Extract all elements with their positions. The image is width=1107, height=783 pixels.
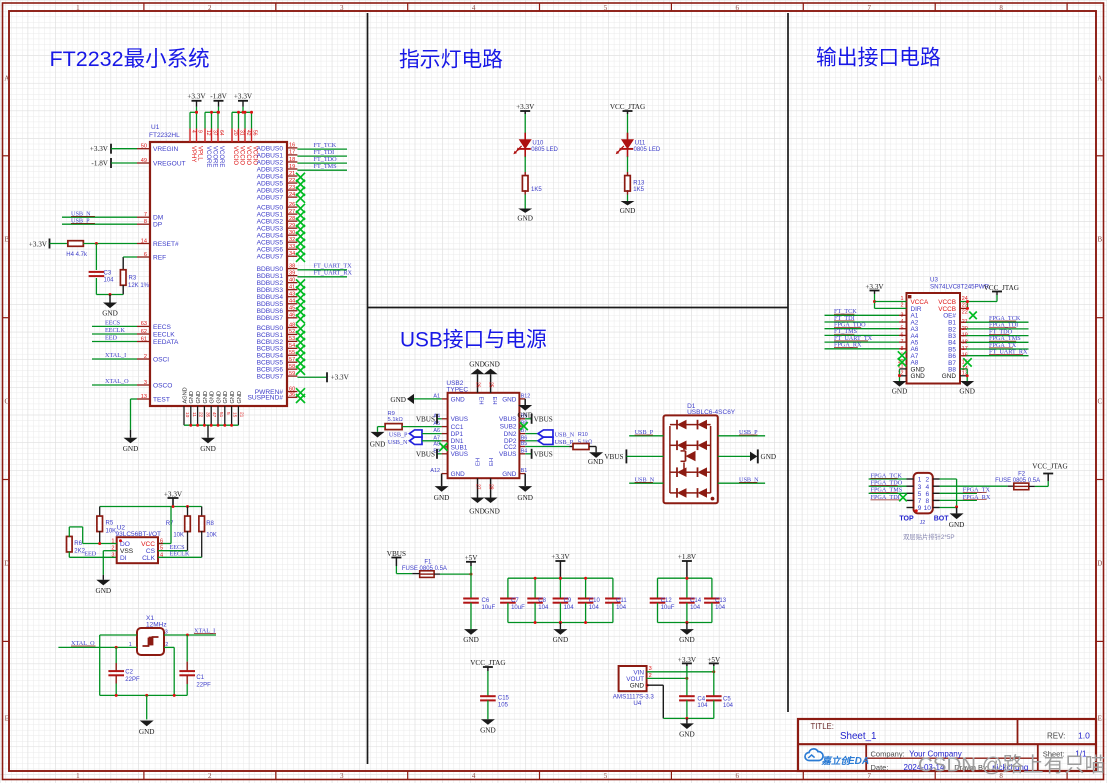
svg-text:7: 7 (144, 212, 147, 218)
svg-text:104: 104 (538, 605, 549, 611)
svg-text:ADBUS6: ADBUS6 (257, 187, 284, 194)
svg-text:DM: DM (153, 215, 163, 222)
svg-text:VCCIO: VCCIO (239, 146, 245, 165)
svg-text:31: 31 (239, 130, 245, 136)
svg-text:VPLL: VPLL (197, 146, 203, 161)
svg-text:2: 2 (208, 772, 212, 780)
svg-text:EH: EH (491, 397, 497, 405)
svg-text:22: 22 (962, 310, 968, 316)
svg-text:BDBUS5: BDBUS5 (257, 301, 284, 308)
svg-text:D: D (4, 560, 9, 568)
svg-text:DO: DO (120, 541, 130, 548)
svg-text:GND: GND (892, 388, 908, 396)
svg-text:104: 104 (715, 605, 726, 611)
svg-text:VBUS: VBUS (499, 416, 516, 423)
svg-text:35: 35 (204, 412, 210, 418)
svg-text:DP1: DP1 (451, 431, 464, 438)
svg-text:32: 32 (289, 237, 295, 243)
svg-text:59: 59 (289, 371, 295, 377)
svg-text:C5: C5 (723, 696, 731, 702)
svg-text:CLK: CLK (142, 555, 155, 562)
svg-text:BCBUS3: BCBUS3 (257, 346, 284, 353)
svg-text:B: B (4, 236, 9, 244)
svg-text:GND: GND (484, 360, 500, 368)
svg-text:ACBUS2: ACBUS2 (257, 219, 284, 226)
svg-text:C: C (4, 398, 9, 406)
svg-text:OSCI: OSCI (153, 356, 169, 363)
svg-text:TEST: TEST (153, 396, 170, 403)
svg-text:BCBUS7: BCBUS7 (257, 373, 284, 380)
svg-text:23: 23 (289, 185, 295, 191)
svg-text:1: 1 (918, 477, 922, 484)
svg-text:FT_UART_TX: FT_UART_TX (314, 263, 353, 270)
svg-text:CSDN @路上有只喵: CSDN @路上有只喵 (918, 754, 1105, 777)
svg-text:DI: DI (120, 555, 127, 562)
svg-text:FT_UART_RX: FT_UART_RX (314, 270, 353, 277)
svg-text:19: 19 (289, 164, 295, 170)
svg-text:A12: A12 (430, 468, 440, 474)
svg-text:A: A (1097, 75, 1102, 83)
svg-text:3: 3 (918, 484, 922, 491)
svg-text:ACBUS6: ACBUS6 (257, 247, 284, 254)
svg-text:8: 8 (925, 498, 929, 505)
svg-text:42: 42 (245, 130, 251, 136)
svg-text:TITLE:: TITLE: (811, 722, 834, 731)
svg-text:57: 57 (289, 357, 295, 363)
svg-text:A8: A8 (433, 442, 440, 448)
svg-text:7: 7 (867, 4, 871, 12)
svg-text:10uF: 10uF (661, 605, 675, 611)
svg-text:22PF: 22PF (125, 677, 140, 683)
svg-text:F2: F2 (1018, 471, 1026, 477)
svg-text:23: 23 (962, 303, 968, 309)
svg-text:USB_P: USB_P (555, 439, 574, 446)
svg-text:+1.8V: +1.8V (678, 553, 697, 561)
svg-text:VBUS: VBUS (534, 416, 553, 424)
svg-text:4: 4 (472, 4, 476, 12)
svg-text:14: 14 (141, 238, 147, 244)
svg-text:SUB2: SUB2 (500, 424, 517, 431)
svg-text:9: 9 (918, 505, 922, 512)
svg-text:R13: R13 (633, 181, 645, 187)
svg-text:EED: EED (84, 550, 97, 557)
svg-text:R5: R5 (106, 521, 114, 527)
svg-text:6: 6 (736, 4, 740, 12)
svg-text:10uF: 10uF (511, 605, 525, 611)
svg-text:GND: GND (463, 636, 479, 644)
svg-text:GND: GND (679, 731, 695, 739)
svg-text:GND: GND (484, 508, 500, 516)
svg-text:ACBUS0: ACBUS0 (257, 205, 284, 212)
svg-text:EH: EH (489, 458, 495, 466)
svg-text:+3.3V: +3.3V (234, 93, 253, 101)
svg-text:VBUS: VBUS (499, 451, 516, 458)
svg-text:GND: GND (96, 587, 112, 595)
svg-text:43: 43 (289, 292, 295, 298)
svg-text:30: 30 (289, 230, 295, 236)
svg-text:21: 21 (238, 412, 244, 418)
svg-text:VBUS: VBUS (604, 453, 623, 461)
svg-text:4: 4 (925, 484, 929, 491)
svg-text:26: 26 (289, 202, 295, 208)
svg-text:+3.3V: +3.3V (865, 283, 884, 291)
svg-text:FT2232最小系统: FT2232最小系统 (50, 47, 210, 71)
svg-text:24: 24 (289, 192, 295, 198)
svg-text:22: 22 (198, 412, 204, 418)
svg-text:7: 7 (867, 772, 871, 780)
svg-text:C14: C14 (690, 598, 702, 604)
svg-text:USBLC6-4SC6Y: USBLC6-4SC6Y (687, 409, 736, 416)
svg-text:C8: C8 (538, 598, 546, 604)
svg-text:27: 27 (475, 484, 481, 490)
svg-text:6: 6 (144, 252, 147, 258)
svg-text:EECS: EECS (153, 324, 172, 331)
svg-text:7: 7 (918, 498, 922, 505)
svg-text:FT_TCK: FT_TCK (314, 142, 337, 149)
svg-text:104: 104 (697, 703, 708, 709)
svg-text:104: 104 (616, 605, 627, 611)
svg-text:41: 41 (289, 284, 295, 290)
svg-text:+3.3V: +3.3V (90, 145, 109, 153)
svg-text:ADBUS3: ADBUS3 (257, 166, 284, 173)
svg-text:C1: C1 (196, 675, 204, 681)
svg-text:Company:: Company: (871, 750, 905, 759)
svg-text:GND: GND (469, 508, 485, 516)
svg-text:GND: GND (761, 453, 777, 461)
svg-text:+3.3V: +3.3V (164, 490, 183, 498)
svg-text:GND: GND (911, 373, 926, 380)
svg-text:EED: EED (105, 335, 118, 342)
svg-text:BDBUS1: BDBUS1 (257, 273, 284, 280)
svg-text:R6: R6 (74, 541, 82, 547)
svg-text:GND: GND (203, 391, 209, 403)
svg-text:ADBUS7: ADBUS7 (257, 195, 284, 202)
svg-text:U10: U10 (532, 141, 544, 147)
svg-text:C7: C7 (511, 598, 519, 604)
svg-text:GND: GND (451, 396, 466, 403)
svg-text:GND: GND (553, 636, 569, 644)
svg-text:56: 56 (252, 130, 258, 136)
svg-text:5: 5 (604, 772, 608, 780)
svg-text:C9: C9 (564, 598, 572, 604)
svg-text:GND: GND (588, 458, 604, 466)
svg-text:GND: GND (517, 214, 533, 222)
svg-text:10uF: 10uF (482, 605, 496, 611)
svg-text:17: 17 (289, 150, 295, 156)
svg-text:GND: GND (216, 391, 222, 403)
svg-text:EECS: EECS (105, 320, 121, 327)
svg-text:VCCIO: VCCIO (232, 146, 238, 165)
svg-text:U3: U3 (930, 277, 938, 284)
svg-text:C3: C3 (104, 271, 112, 277)
svg-text:USB接口与电源: USB接口与电源 (400, 329, 547, 352)
svg-text:C6: C6 (482, 598, 490, 604)
svg-text:0805 LED: 0805 LED (531, 147, 558, 153)
svg-text:C: C (1097, 398, 1102, 406)
svg-text:D: D (1097, 560, 1102, 568)
svg-text:10: 10 (924, 505, 932, 512)
svg-text:AGND: AGND (182, 387, 188, 403)
svg-text:双层贴片排针2*5P: 双层贴片排针2*5P (903, 532, 954, 541)
svg-text:VCC_JTAG: VCC_JTAG (610, 103, 645, 111)
svg-text:+3.3V: +3.3V (551, 553, 570, 561)
svg-text:ADBUS5: ADBUS5 (257, 180, 284, 187)
svg-text:5: 5 (604, 4, 608, 12)
svg-text:嘉立创: 嘉立创 (821, 755, 852, 767)
svg-text:R3: R3 (129, 276, 137, 282)
svg-text:BOT: BOT (934, 516, 950, 523)
svg-text:EECLK: EECLK (153, 331, 175, 338)
svg-text:24: 24 (962, 296, 968, 302)
svg-text:-1.8V: -1.8V (210, 93, 227, 101)
svg-text:29: 29 (289, 223, 295, 229)
svg-text:36: 36 (289, 392, 295, 398)
svg-text:GND: GND (210, 391, 216, 403)
svg-text:GND: GND (949, 521, 965, 529)
svg-text:5.1kΩ: 5.1kΩ (388, 417, 404, 423)
svg-text:C13: C13 (715, 598, 727, 604)
svg-text:3: 3 (111, 552, 114, 558)
svg-text:18: 18 (289, 157, 295, 163)
svg-text:47: 47 (211, 412, 217, 418)
svg-text:USB_P: USB_P (389, 431, 408, 438)
svg-text:EECLK: EECLK (170, 551, 190, 558)
svg-text:63: 63 (141, 321, 147, 327)
svg-text:39: 39 (289, 270, 295, 276)
svg-text:54: 54 (289, 343, 295, 349)
svg-text:BDBUS2: BDBUS2 (257, 280, 284, 287)
svg-text:VREGOUT: VREGOUT (153, 160, 186, 167)
svg-text:GND: GND (502, 471, 517, 478)
svg-text:DP: DP (153, 222, 163, 229)
svg-text:ADBUS2: ADBUS2 (257, 159, 284, 166)
svg-text:C10: C10 (589, 598, 601, 604)
svg-text:4: 4 (472, 772, 476, 780)
svg-text:C12: C12 (661, 598, 673, 604)
svg-text:BDBUS6: BDBUS6 (257, 308, 284, 315)
svg-text:GND: GND (517, 494, 533, 502)
svg-text:BDBUS7: BDBUS7 (257, 315, 284, 322)
svg-text:10K: 10K (173, 533, 184, 539)
svg-text:ACBUS1: ACBUS1 (257, 212, 284, 219)
svg-text:Sheet_1: Sheet_1 (840, 731, 877, 742)
svg-text:XTAL_I: XTAL_I (105, 352, 126, 359)
svg-text:40: 40 (289, 277, 295, 283)
svg-text:VREGIN: VREGIN (153, 146, 179, 153)
svg-text:BDBUS4: BDBUS4 (257, 294, 284, 301)
svg-text:BDBUS0: BDBUS0 (257, 266, 284, 273)
svg-text:GND: GND (679, 636, 695, 644)
svg-text:BCBUS2: BCBUS2 (257, 339, 284, 346)
svg-text:A: A (4, 75, 9, 83)
svg-text:104: 104 (104, 278, 115, 284)
svg-text:GND: GND (469, 360, 485, 368)
svg-text:B1: B1 (521, 468, 528, 474)
svg-text:VBUS: VBUS (451, 451, 468, 458)
svg-text:VCC_JTAG: VCC_JTAG (470, 659, 505, 667)
svg-text:22: 22 (289, 178, 295, 184)
svg-text:GND: GND (139, 728, 155, 736)
svg-text:93LC56BT-I/OT: 93LC56BT-I/OT (116, 531, 162, 538)
svg-text:8: 8 (999, 4, 1003, 12)
svg-text:GND: GND (942, 373, 957, 380)
svg-text:3: 3 (144, 380, 147, 386)
svg-text:6: 6 (925, 491, 929, 498)
svg-text:38: 38 (289, 263, 295, 269)
svg-text:GND: GND (200, 445, 216, 453)
svg-text:104: 104 (723, 703, 734, 709)
svg-text:VCCIO: VCCIO (245, 146, 251, 165)
svg-text:GND: GND (189, 391, 195, 403)
svg-text:25: 25 (488, 382, 494, 388)
svg-text:RESET#: RESET# (153, 241, 179, 248)
svg-text:GND: GND (196, 391, 202, 403)
svg-text:22PF: 22PF (196, 682, 211, 688)
svg-text:27: 27 (289, 209, 295, 215)
svg-text:1: 1 (76, 4, 80, 12)
svg-text:26: 26 (475, 382, 481, 388)
svg-text:ADBUS0: ADBUS0 (257, 145, 284, 152)
svg-text:GND: GND (959, 388, 975, 396)
svg-text:VCC_JTAG: VCC_JTAG (1032, 463, 1067, 471)
svg-text:1.0: 1.0 (1078, 731, 1090, 741)
svg-text:U11: U11 (635, 141, 646, 147)
svg-text:ACBUS4: ACBUS4 (257, 233, 284, 240)
svg-text:11: 11 (191, 412, 197, 417)
svg-text:51: 51 (218, 412, 224, 418)
svg-text:-1.8V: -1.8V (91, 160, 108, 168)
svg-text:EDA: EDA (848, 756, 869, 767)
svg-text:62: 62 (141, 329, 147, 335)
svg-text:20: 20 (232, 130, 238, 136)
svg-text:34: 34 (289, 251, 295, 257)
svg-text:VPHY: VPHY (190, 146, 196, 162)
svg-text:53: 53 (289, 336, 295, 342)
svg-text:GND: GND (237, 391, 243, 403)
svg-text:E: E (5, 715, 9, 723)
svg-text:VCORE: VCORE (218, 146, 224, 167)
svg-text:4: 4 (190, 130, 196, 133)
svg-text:C2: C2 (125, 670, 133, 676)
svg-text:45: 45 (289, 306, 295, 312)
svg-text:GND: GND (480, 726, 496, 734)
svg-text:GND: GND (630, 683, 645, 690)
svg-text:104: 104 (589, 605, 600, 611)
svg-text:1: 1 (76, 772, 80, 780)
svg-text:GND: GND (390, 396, 406, 404)
svg-text:VBUS: VBUS (451, 416, 468, 423)
svg-text:3: 3 (340, 772, 344, 780)
svg-text:21: 21 (289, 171, 295, 177)
svg-text:3: 3 (340, 4, 344, 12)
svg-text:CC1: CC1 (451, 424, 464, 431)
svg-text:R10: R10 (578, 432, 588, 438)
svg-text:DN2: DN2 (504, 431, 517, 438)
svg-text:10K: 10K (206, 533, 217, 539)
svg-text:C15: C15 (498, 696, 510, 702)
svg-text:B: B (1097, 236, 1102, 244)
svg-text:ACBUS5: ACBUS5 (257, 240, 284, 247)
svg-text:VCORE: VCORE (205, 146, 211, 167)
svg-text:VBUS: VBUS (416, 416, 435, 424)
svg-text:1K5: 1K5 (633, 187, 644, 193)
svg-text:52: 52 (289, 329, 295, 335)
svg-text:GND: GND (502, 396, 517, 403)
svg-text:105: 105 (498, 703, 509, 709)
svg-text:F1: F1 (424, 559, 432, 565)
svg-text:16: 16 (289, 143, 295, 149)
svg-text:8: 8 (144, 219, 147, 225)
svg-text:J2: J2 (920, 520, 926, 526)
svg-text:6: 6 (736, 772, 740, 780)
svg-text:BDBUS3: BDBUS3 (257, 287, 284, 294)
svg-text:46: 46 (289, 313, 295, 319)
svg-text:104: 104 (690, 605, 701, 611)
svg-text:OSCO: OSCO (153, 382, 172, 389)
svg-text:58: 58 (289, 364, 295, 370)
svg-text:H4 4.7k: H4 4.7k (66, 252, 88, 258)
svg-text:+3.3V: +3.3V (187, 93, 206, 101)
svg-text:CC2: CC2 (504, 444, 517, 451)
svg-text:VCORE: VCORE (212, 146, 218, 167)
svg-text:50: 50 (141, 144, 147, 150)
svg-text:+3.3V: +3.3V (516, 103, 535, 111)
svg-text:ACBUS3: ACBUS3 (257, 226, 284, 233)
svg-text:FT_TDO: FT_TDO (314, 156, 338, 163)
svg-text:U4: U4 (633, 700, 641, 707)
svg-text:GND: GND (434, 494, 450, 502)
svg-text:C11: C11 (616, 598, 627, 604)
svg-text:64: 64 (218, 130, 224, 136)
svg-text:GND: GND (223, 391, 229, 403)
svg-text:E: E (1098, 715, 1102, 723)
svg-text:+3.3V: +3.3V (29, 241, 48, 249)
svg-text:TOP: TOP (899, 516, 914, 523)
svg-text:C4: C4 (697, 696, 705, 702)
svg-text:48: 48 (289, 322, 295, 328)
svg-text:13: 13 (141, 394, 147, 400)
svg-text:GND: GND (620, 207, 636, 215)
svg-text:55: 55 (289, 350, 295, 356)
svg-text:9: 9 (197, 130, 203, 133)
svg-text:GND: GND (451, 471, 466, 478)
svg-text:SN74LVC8T245PWR: SN74LVC8T245PWR (930, 284, 990, 291)
svg-text:2: 2 (144, 354, 147, 360)
svg-text:28: 28 (488, 484, 494, 490)
svg-text:+3.3V: +3.3V (331, 374, 350, 382)
svg-text:5: 5 (225, 412, 231, 415)
svg-text:37: 37 (212, 130, 218, 136)
svg-text:12: 12 (205, 130, 211, 136)
svg-text:FT_TMS: FT_TMS (314, 163, 338, 170)
svg-text:2: 2 (901, 303, 904, 309)
svg-text:VCC: VCC (141, 541, 155, 548)
svg-text:10: 10 (184, 412, 190, 418)
svg-text:12K 1%: 12K 1% (128, 283, 150, 289)
svg-text:104: 104 (564, 605, 575, 611)
svg-text:EH: EH (476, 458, 482, 466)
svg-text:B12: B12 (521, 394, 531, 400)
svg-text:49: 49 (141, 158, 147, 164)
svg-text:FT_TDI: FT_TDI (314, 149, 335, 156)
svg-text:EECLK: EECLK (105, 327, 125, 334)
svg-text:2: 2 (925, 477, 929, 484)
svg-text:GND: GND (123, 445, 139, 453)
svg-text:VBUS: VBUS (534, 451, 553, 459)
svg-text:USB_N: USB_N (388, 439, 408, 446)
svg-text:44: 44 (289, 299, 295, 305)
svg-text:SUSPEND#: SUSPEND# (247, 395, 283, 402)
